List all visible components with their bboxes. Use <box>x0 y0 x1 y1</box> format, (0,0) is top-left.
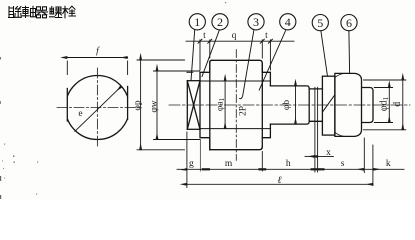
svg-text:φd1: φd1 <box>379 96 391 111</box>
svg-text:t: t <box>265 31 268 41</box>
svg-text:φa1: φa1 <box>215 97 226 111</box>
svg-text:g: g <box>189 159 194 169</box>
svg-text:ℓ: ℓ <box>277 175 281 186</box>
svg-text:d: d <box>392 102 403 107</box>
svg-text:t: t <box>203 31 206 41</box>
svg-text:1: 1 <box>194 15 200 29</box>
svg-text:φb: φb <box>282 100 292 110</box>
svg-text:6: 6 <box>346 16 352 30</box>
svg-text:h: h <box>286 159 291 169</box>
svg-text:φp: φp <box>133 100 143 110</box>
svg-text:e: e <box>78 109 82 119</box>
svg-text:φw: φw <box>149 100 159 112</box>
svg-text:x: x <box>326 148 331 158</box>
svg-text:2P: 2P <box>238 106 248 116</box>
svg-text:m: m <box>225 159 233 169</box>
svg-text:f: f <box>96 46 100 57</box>
svg-text:k: k <box>386 159 391 169</box>
svg-text:q: q <box>232 31 237 41</box>
svg-text:5: 5 <box>317 16 323 30</box>
svg-text:s: s <box>341 159 345 169</box>
svg-text:3: 3 <box>253 15 259 29</box>
svg-text:4: 4 <box>285 15 291 29</box>
svg-text:2: 2 <box>217 15 223 29</box>
